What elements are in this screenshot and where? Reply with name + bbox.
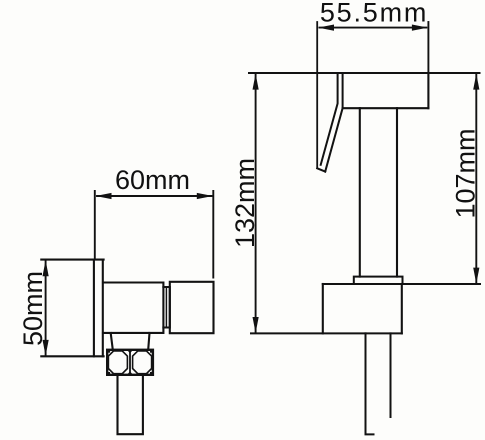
inlet pipe — [118, 376, 143, 435]
wall flange face line inner — [93, 260, 95, 357]
tube right edge — [396, 108, 398, 276]
trigger back edge inner — [325, 73, 342, 172]
hose right line — [390, 333, 392, 417]
arrow 60mm left — [96, 193, 112, 199]
dim line 60mm — [97, 195, 212, 197]
extension line 55.5mm left / sprayer front edge — [316, 22, 318, 168]
arrow 50mm up — [43, 260, 49, 276]
valve spout cylinder — [170, 282, 214, 333]
block right edge — [401, 284, 403, 333]
arrow 107mm up — [473, 74, 479, 90]
nut neck left line — [111, 333, 113, 350]
bottom reference line 107mm / block top — [323, 283, 480, 285]
valve neck groove line — [165, 287, 167, 328]
hex nut corner dot top-left — [108, 350, 110, 352]
arrow 55.5mm right — [412, 25, 428, 31]
hex nut corner dot top-right — [150, 350, 152, 352]
wall flange face line outer — [102, 260, 104, 357]
svg-text:50mm: 50mm — [18, 271, 48, 346]
extension line 60mm left — [94, 191, 96, 260]
collar — [354, 277, 403, 284]
hex nut outer — [107, 350, 153, 375]
hex nut right facet — [133, 351, 152, 374]
nut neck right line — [148, 333, 149, 350]
arrow 60mm right — [197, 193, 213, 199]
valve neck groove — [163, 287, 169, 328]
arrow 107mm down — [473, 268, 479, 284]
sprayer head bottom edge — [343, 107, 429, 109]
extension line 60mm right — [212, 191, 214, 278]
hose left line — [366, 333, 374, 434]
hex nut center line — [129, 351, 131, 375]
trigger tip cap — [317, 168, 325, 171]
top reference line — [249, 72, 480, 74]
hex nut top center notch — [127, 350, 132, 353]
wall flange top line — [41, 259, 103, 261]
hex nut corner dot bottom-right — [150, 372, 152, 374]
trigger back edge outer — [321, 73, 338, 165]
hex nut corner dot bottom-left — [108, 372, 110, 374]
block left edge — [322, 284, 324, 333]
valve body — [103, 283, 163, 333]
arrow 50mm down — [43, 340, 49, 356]
wall flange bottom line — [41, 355, 103, 357]
arrow 55.5mm left — [318, 25, 334, 31]
tube left edge — [359, 108, 361, 276]
dim line 107mm — [475, 74, 477, 283]
svg-text:60mm: 60mm — [115, 165, 190, 195]
hex nut left facet — [108, 351, 127, 374]
dim line 55.5mm — [320, 27, 427, 29]
sprayer head right edge — [427, 73, 429, 108]
dim line 50mm — [45, 261, 47, 355]
hex nut bottom center notch — [127, 371, 132, 374]
svg-text:55.5mm: 55.5mm — [320, 0, 428, 28]
dim line 132mm — [255, 74, 257, 333]
extension line 55.5mm right — [427, 22, 429, 73]
arrow 132mm down — [253, 317, 259, 333]
arrow 132mm up — [253, 74, 259, 90]
bottom reference line 132mm — [251, 332, 402, 334]
